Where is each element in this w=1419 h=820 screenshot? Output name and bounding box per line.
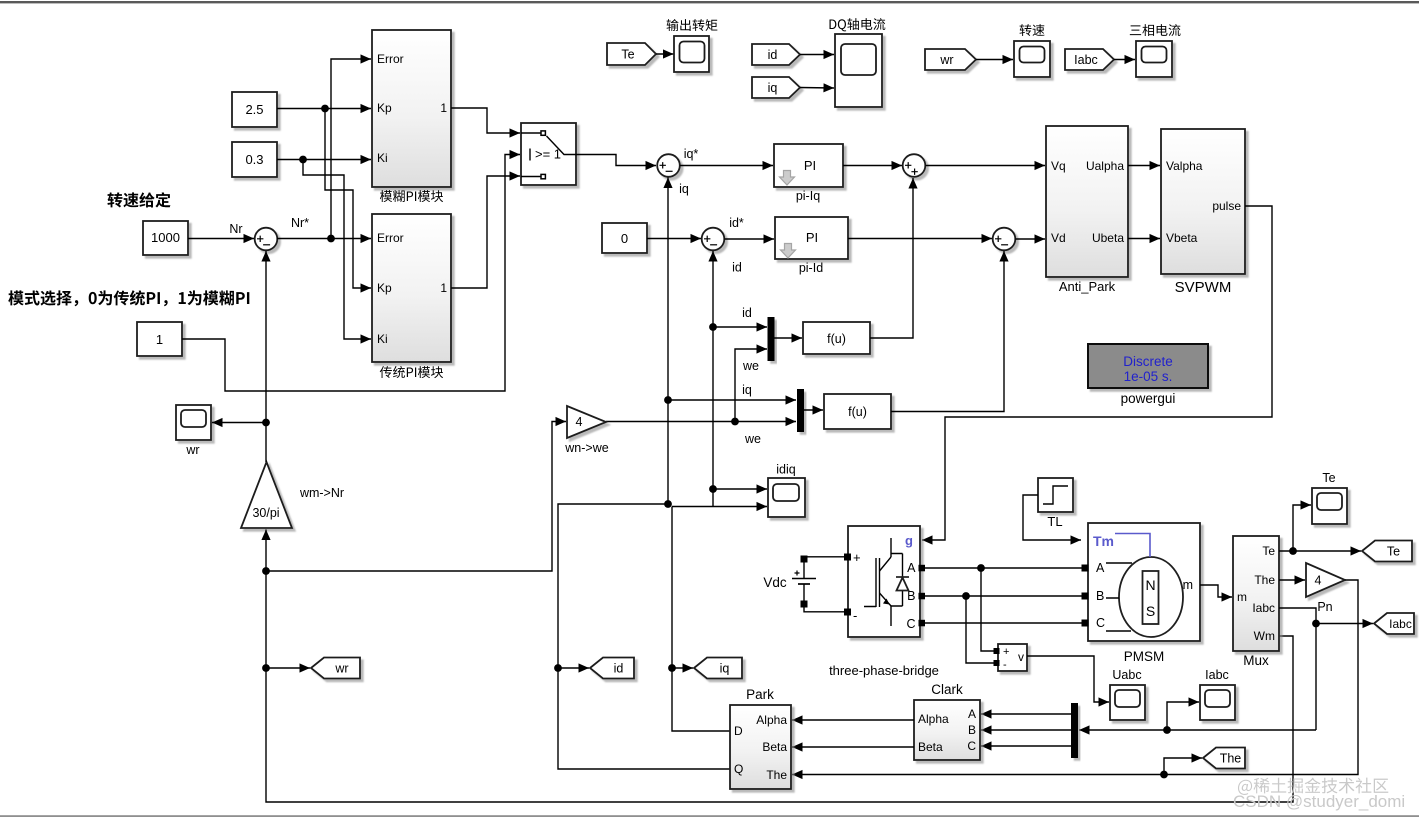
wire 2.5 to 传统 Kp [325, 109, 371, 289]
mux bar 3 [1071, 703, 1078, 758]
wire id tag to scope [800, 54, 834, 56]
svg-text:Uabc: Uabc [1112, 668, 1141, 682]
function block f(u) 1 [803, 322, 870, 354]
wire iq to mux2 [668, 399, 796, 401]
goto tag Iabc [1374, 613, 1414, 634]
wire Vdc- to bridge [804, 607, 844, 612]
svg-text:f(u): f(u) [848, 405, 867, 419]
svg-text:1: 1 [440, 101, 447, 115]
wire 0 to id sum [647, 238, 701, 240]
svg-text:Beta: Beta [918, 740, 943, 754]
junction iq lower [664, 500, 672, 508]
svg-text:iq: iq [742, 383, 752, 397]
scope wr [176, 405, 211, 440]
svg-text:wr: wr [334, 661, 348, 675]
top border line [0, 1, 1419, 3]
wire 2.5 to Kp inputs [277, 108, 371, 110]
wire to iq tag [672, 667, 693, 669]
scope 三相电流 [1136, 41, 1172, 77]
wire Te to scope [1293, 505, 1311, 551]
label 传统PI模块 [380, 366, 443, 378]
goto tag The [1203, 748, 1245, 769]
svg-text:Iabc: Iabc [1252, 601, 1275, 615]
wire 1000 to sum [188, 238, 254, 240]
svg-text:4: 4 [1315, 574, 1322, 588]
sum junction d-axis decouple [993, 228, 1016, 251]
goto tag Te [1362, 541, 1412, 562]
svg-text:wn->we: wn->we [564, 441, 608, 455]
from tag wr [925, 49, 976, 70]
svg-text:Park: Park [746, 687, 774, 702]
wire sum3 to Anti_Park Vd [1016, 238, 1046, 240]
svg-text:Wm: Wm [1254, 629, 1275, 643]
wire bridge A to PMSM A [924, 567, 1082, 569]
svg-text:wm->Nr: wm->Nr [299, 486, 344, 500]
wire TL to Tm [1023, 495, 1081, 540]
svg-text:CSDN @studyer_domi: CSDN @studyer_domi [1233, 792, 1405, 811]
PI controller pi-Id [775, 217, 848, 259]
wire voltmeter to Uabc scope [1027, 656, 1109, 702]
wire Park D up [672, 507, 730, 732]
svg-text:Te: Te [621, 47, 634, 61]
wire to wr tag [266, 667, 310, 669]
svg-text:iq*: iq* [684, 147, 699, 161]
svg-text:PI: PI [804, 158, 816, 173]
junction The tag branch [1160, 771, 1168, 779]
wire pi-Iq to sum2 [843, 165, 902, 167]
svg-text:pi-Iq: pi-Iq [796, 189, 820, 203]
wire pi-Id to sum3 [848, 238, 992, 240]
svg-text:Vq: Vq [1051, 159, 1066, 173]
svg-text:Valpha: Valpha [1166, 159, 1203, 173]
subsystem Park [730, 705, 791, 789]
from tag iq [752, 77, 800, 98]
svg-text:0.3: 0.3 [245, 152, 263, 167]
svg-text:Ubeta: Ubeta [1092, 231, 1124, 245]
svg-text:Alpha: Alpha [918, 712, 949, 726]
svg-text:Mux: Mux [1243, 653, 1269, 668]
PMSM rotor drawing [1119, 557, 1183, 637]
svg-text:4: 4 [576, 415, 583, 429]
step block TL [1038, 478, 1073, 512]
svg-text:Iabc: Iabc [1205, 668, 1229, 682]
constant 1 (mode select) [137, 322, 182, 356]
watermark line 1 [1238, 778, 1388, 795]
svg-text:Te: Te [1262, 544, 1275, 558]
svg-text:Kp: Kp [377, 101, 392, 115]
svg-text:-: - [853, 608, 857, 623]
svg-text:id: id [614, 661, 624, 675]
label 模糊PI模块 [380, 190, 443, 202]
svg-text:SVPWM: SVPWM [1175, 279, 1232, 296]
svg-text:Pn: Pn [1317, 600, 1332, 614]
svg-text:m: m [1237, 590, 1247, 604]
svg-text:Error: Error [377, 231, 404, 245]
wire A to voltmeter + [981, 568, 994, 651]
svg-text:1: 1 [156, 332, 163, 347]
svg-text:Q: Q [734, 762, 743, 776]
svg-text:pulse: pulse [1212, 199, 1241, 213]
wire mux1 to f(u)1 [775, 337, 803, 339]
wire 模糊 output to switch in1 [451, 108, 520, 133]
three-phase bridge block [848, 526, 920, 637]
junction wr tag branch [262, 664, 270, 672]
svg-text:-: - [1003, 659, 1007, 671]
wire bridge C to PMSM C [924, 622, 1082, 624]
svg-text:Anti_Park: Anti_Park [1059, 279, 1116, 294]
svg-text:Nr*: Nr* [291, 216, 309, 230]
svg-text:Te: Te [1387, 544, 1400, 558]
svg-text:iq: iq [720, 661, 730, 675]
switch block (>= 1) [521, 123, 576, 185]
mux bar 2 [797, 389, 804, 432]
wire bar3 to Clark C [981, 745, 1071, 747]
svg-text:Kp: Kp [377, 281, 392, 295]
DC source Vdc [792, 560, 816, 601]
svg-text:id*: id* [729, 216, 744, 230]
svg-text:Tm: Tm [1093, 533, 1114, 549]
junction A to voltmeter [977, 564, 985, 572]
subsystem 模糊PI模块 [372, 30, 451, 187]
sum junction q-axis decouple [903, 154, 926, 177]
wire gain to Park The [792, 580, 1358, 775]
wire PMSM m to Mux [1200, 585, 1232, 597]
sum junction Nr (speed error) [255, 228, 278, 251]
svg-text:Ki: Ki [377, 332, 388, 346]
svg-text:1000: 1000 [151, 230, 180, 245]
wire bridge B to PMSM B [924, 595, 1082, 597]
wire id vertical feedback [712, 251, 714, 507]
voltage measurement block [998, 644, 1027, 671]
svg-text:B: B [968, 723, 976, 737]
svg-text:A: A [968, 707, 976, 721]
powergui block [1088, 344, 1208, 388]
scope 输出转矩 [674, 36, 709, 72]
wire 0.3 to 传统 Ki [303, 160, 371, 340]
svg-text:The: The [766, 768, 787, 782]
svg-text:Vdc: Vdc [763, 575, 787, 590]
goto tag iq [694, 658, 742, 679]
wire bar3 to Clark A [981, 713, 1071, 715]
svg-text:Clark: Clark [931, 682, 963, 697]
subsystem 传统PI模块 [372, 214, 451, 362]
wire to The tag [1164, 758, 1202, 775]
svg-text:The: The [1220, 751, 1242, 765]
wire B to voltmeter - [966, 596, 994, 663]
sum junction iq [657, 154, 680, 177]
wire wr to gain input [266, 422, 566, 572]
svg-text:wr: wr [939, 53, 953, 67]
wire to id tag [558, 667, 589, 669]
svg-text:D: D [734, 724, 743, 738]
wire id to idiq input1 [713, 488, 767, 490]
scope idiq [768, 478, 805, 517]
wire gain to mux2 we [606, 421, 796, 423]
svg-text:Te: Te [1322, 471, 1335, 485]
from tag Te [607, 43, 656, 65]
gain 30/pi wm->Nr [241, 462, 292, 528]
svg-text:S: S [1146, 603, 1155, 619]
svg-text:Beta: Beta [762, 740, 787, 754]
wire iq jog to idiq input2 [672, 506, 767, 508]
junction Te [1289, 547, 1297, 555]
scope Uabc [1110, 685, 1145, 720]
junction B to voltmeter [962, 592, 970, 600]
svg-text:PMSM: PMSM [1124, 649, 1165, 664]
svg-text:+: + [1003, 646, 1009, 658]
junction wr scope branch [262, 419, 270, 427]
wire f(u)2 to sum3 [891, 251, 1004, 412]
function block f(u) 2 [824, 394, 891, 429]
svg-text:N: N [1145, 577, 1155, 593]
wire 传统 output to switch in3 [451, 176, 520, 288]
label 输出转矩 [667, 19, 718, 31]
svg-text:The: The [1254, 573, 1275, 587]
wire iq tag to scope [800, 87, 834, 90]
wire Mux Iabc down [1279, 608, 1316, 730]
scope DQ轴电流 [835, 34, 882, 107]
svg-text:Iabc: Iabc [1389, 617, 1412, 631]
svg-text:f(u): f(u) [827, 332, 846, 346]
svg-text:Discrete: Discrete [1123, 354, 1173, 369]
svg-text:three-phase-bridge: three-phase-bridge [829, 663, 939, 678]
svg-text:g: g [905, 533, 913, 548]
svg-text:A: A [907, 561, 916, 575]
wire Iabc to mux bar 3 [1079, 729, 1316, 731]
svg-text:m: m [1183, 578, 1193, 592]
scope Iabc [1200, 685, 1235, 720]
junction Iabc tag branch [1312, 620, 1320, 628]
gain 4 Pn [1306, 563, 1345, 597]
svg-text:Vbeta: Vbeta [1166, 231, 1198, 245]
wire id sum to pi-Id [725, 238, 775, 240]
subsystem Clark [914, 700, 980, 760]
wire switch output to iq sum [576, 155, 656, 166]
constant 0 (id ref) [602, 223, 647, 253]
svg-text:TL: TL [1047, 514, 1062, 529]
label 模式选择，0为传统PI，1为模糊PI [8, 290, 249, 306]
svg-text:id: id [742, 306, 752, 320]
constant 0.3 [232, 142, 277, 177]
svg-text:1e-05 s.: 1e-05 s. [1124, 369, 1173, 384]
svg-text:30/pi: 30/pi [252, 506, 279, 520]
svg-text:PI: PI [806, 230, 818, 245]
wire wr to wr scope [212, 422, 266, 424]
svg-text:B: B [1096, 589, 1104, 603]
wire mode constant to switch control [182, 155, 520, 392]
bottom border line [0, 815, 1419, 817]
wire Mux The to gain [1279, 579, 1305, 581]
svg-text:C: C [906, 617, 915, 631]
wire Vdc+ to bridge [804, 556, 844, 558]
junction we [731, 418, 739, 426]
junction id mux1 branch [709, 323, 717, 331]
svg-text:iq: iq [679, 182, 689, 196]
wire Clark Beta to Park [792, 746, 914, 748]
svg-text:C: C [967, 739, 976, 753]
goto tag id [590, 658, 634, 679]
from tag id [752, 44, 800, 65]
wire Park Q to id tag vertical [558, 504, 730, 769]
wire sum2 to Anti_Park Vq [926, 165, 1046, 167]
wire id to mux1 [713, 326, 767, 328]
junction on 2.5 wire [321, 105, 329, 113]
scope 转速 [1014, 41, 1050, 77]
svg-text:C: C [1096, 616, 1105, 630]
svg-text:we: we [742, 359, 759, 373]
label DQ轴电流 [830, 18, 886, 31]
svg-text:id: id [732, 261, 742, 275]
from tag Iabc [1065, 49, 1114, 70]
constant 1000 [143, 221, 188, 255]
svg-text:>= 1: >= 1 [535, 147, 561, 162]
IGBT symbol inside bridge [864, 538, 891, 626]
svg-text:+: + [853, 550, 861, 565]
PI controller pi-Iq [774, 144, 843, 187]
wire 0.3 to Ki inputs [277, 159, 371, 161]
scope Te [1312, 488, 1347, 524]
wire Te tag to scope [656, 53, 674, 55]
svg-text:Error: Error [377, 52, 404, 66]
svg-text:Nr: Nr [229, 222, 242, 236]
junction wr gain branch [262, 567, 270, 575]
svg-text:Alpha: Alpha [756, 713, 787, 727]
junction id tag branch [554, 664, 562, 672]
junction iq to mux2 [664, 396, 672, 404]
svg-text:we: we [744, 432, 761, 446]
svg-text:wr: wr [185, 443, 199, 457]
mux bar 1 [768, 317, 775, 361]
svg-text:Ualpha: Ualpha [1086, 159, 1124, 173]
wire Iabc tag to scope [1114, 59, 1135, 61]
Mux selector block [1233, 536, 1279, 651]
junction id idiq [709, 485, 717, 493]
svg-text:2.5: 2.5 [245, 102, 263, 117]
goto tag wr [311, 658, 360, 679]
wire Clark Alpha to Park [792, 719, 914, 721]
sum junction id [702, 228, 725, 251]
wire mux2 to f(u)2 [804, 409, 823, 411]
wire iq vertical feedback [667, 178, 669, 505]
label 转速给定 [107, 192, 170, 207]
wire bar3 to Clark B [981, 729, 1071, 731]
wire Nr* to 传统 Error [277, 238, 371, 240]
svg-text:Iabc: Iabc [1074, 53, 1098, 67]
wire f(u)1 to sum2 [870, 178, 913, 338]
svg-text:Vd: Vd [1051, 231, 1066, 245]
subsystem Anti_Park [1046, 126, 1128, 277]
svg-text:v: v [1018, 650, 1024, 664]
wire pulse to bridge g [922, 206, 1272, 540]
wire to Iabc tag [1316, 623, 1373, 625]
junction Nr* [327, 235, 335, 243]
wire to Iabc scope [1167, 702, 1199, 730]
wire we to mux1 [735, 349, 767, 422]
svg-text:iq: iq [768, 81, 778, 95]
wire Nr* to 模糊 Error [331, 59, 371, 239]
junction iq tag branch [668, 664, 676, 672]
wire wr return from Mux Wm [266, 530, 1293, 803]
label 转速 [1020, 24, 1045, 36]
svg-text:0: 0 [621, 231, 628, 246]
gain 4 wn->we [567, 406, 606, 438]
svg-text:1: 1 [440, 281, 447, 295]
wire Ualpha to Valpha [1128, 165, 1160, 167]
junction on 0.3 wire [299, 156, 307, 164]
svg-text:pi-Id: pi-Id [799, 261, 823, 275]
PMSM machine block [1088, 523, 1200, 641]
svg-text:Ki: Ki [377, 151, 388, 165]
wire wr tag to scope [976, 59, 1013, 61]
wire Mux Te to tag [1279, 550, 1361, 552]
junction Iabc scope branch [1163, 726, 1171, 734]
svg-text:A: A [1096, 561, 1105, 575]
svg-text:idiq: idiq [776, 463, 796, 477]
wire 30pi output to Nr sum [265, 251, 267, 462]
constant 2.5 [232, 92, 277, 127]
label 三相电流 [1130, 24, 1181, 36]
subsystem SVPWM [1161, 129, 1245, 274]
wire Ubeta to Vbeta [1128, 238, 1160, 240]
svg-text:powergui: powergui [1121, 391, 1176, 406]
wire iq sum to pi-Iq [680, 165, 773, 167]
svg-text:id: id [768, 48, 778, 62]
